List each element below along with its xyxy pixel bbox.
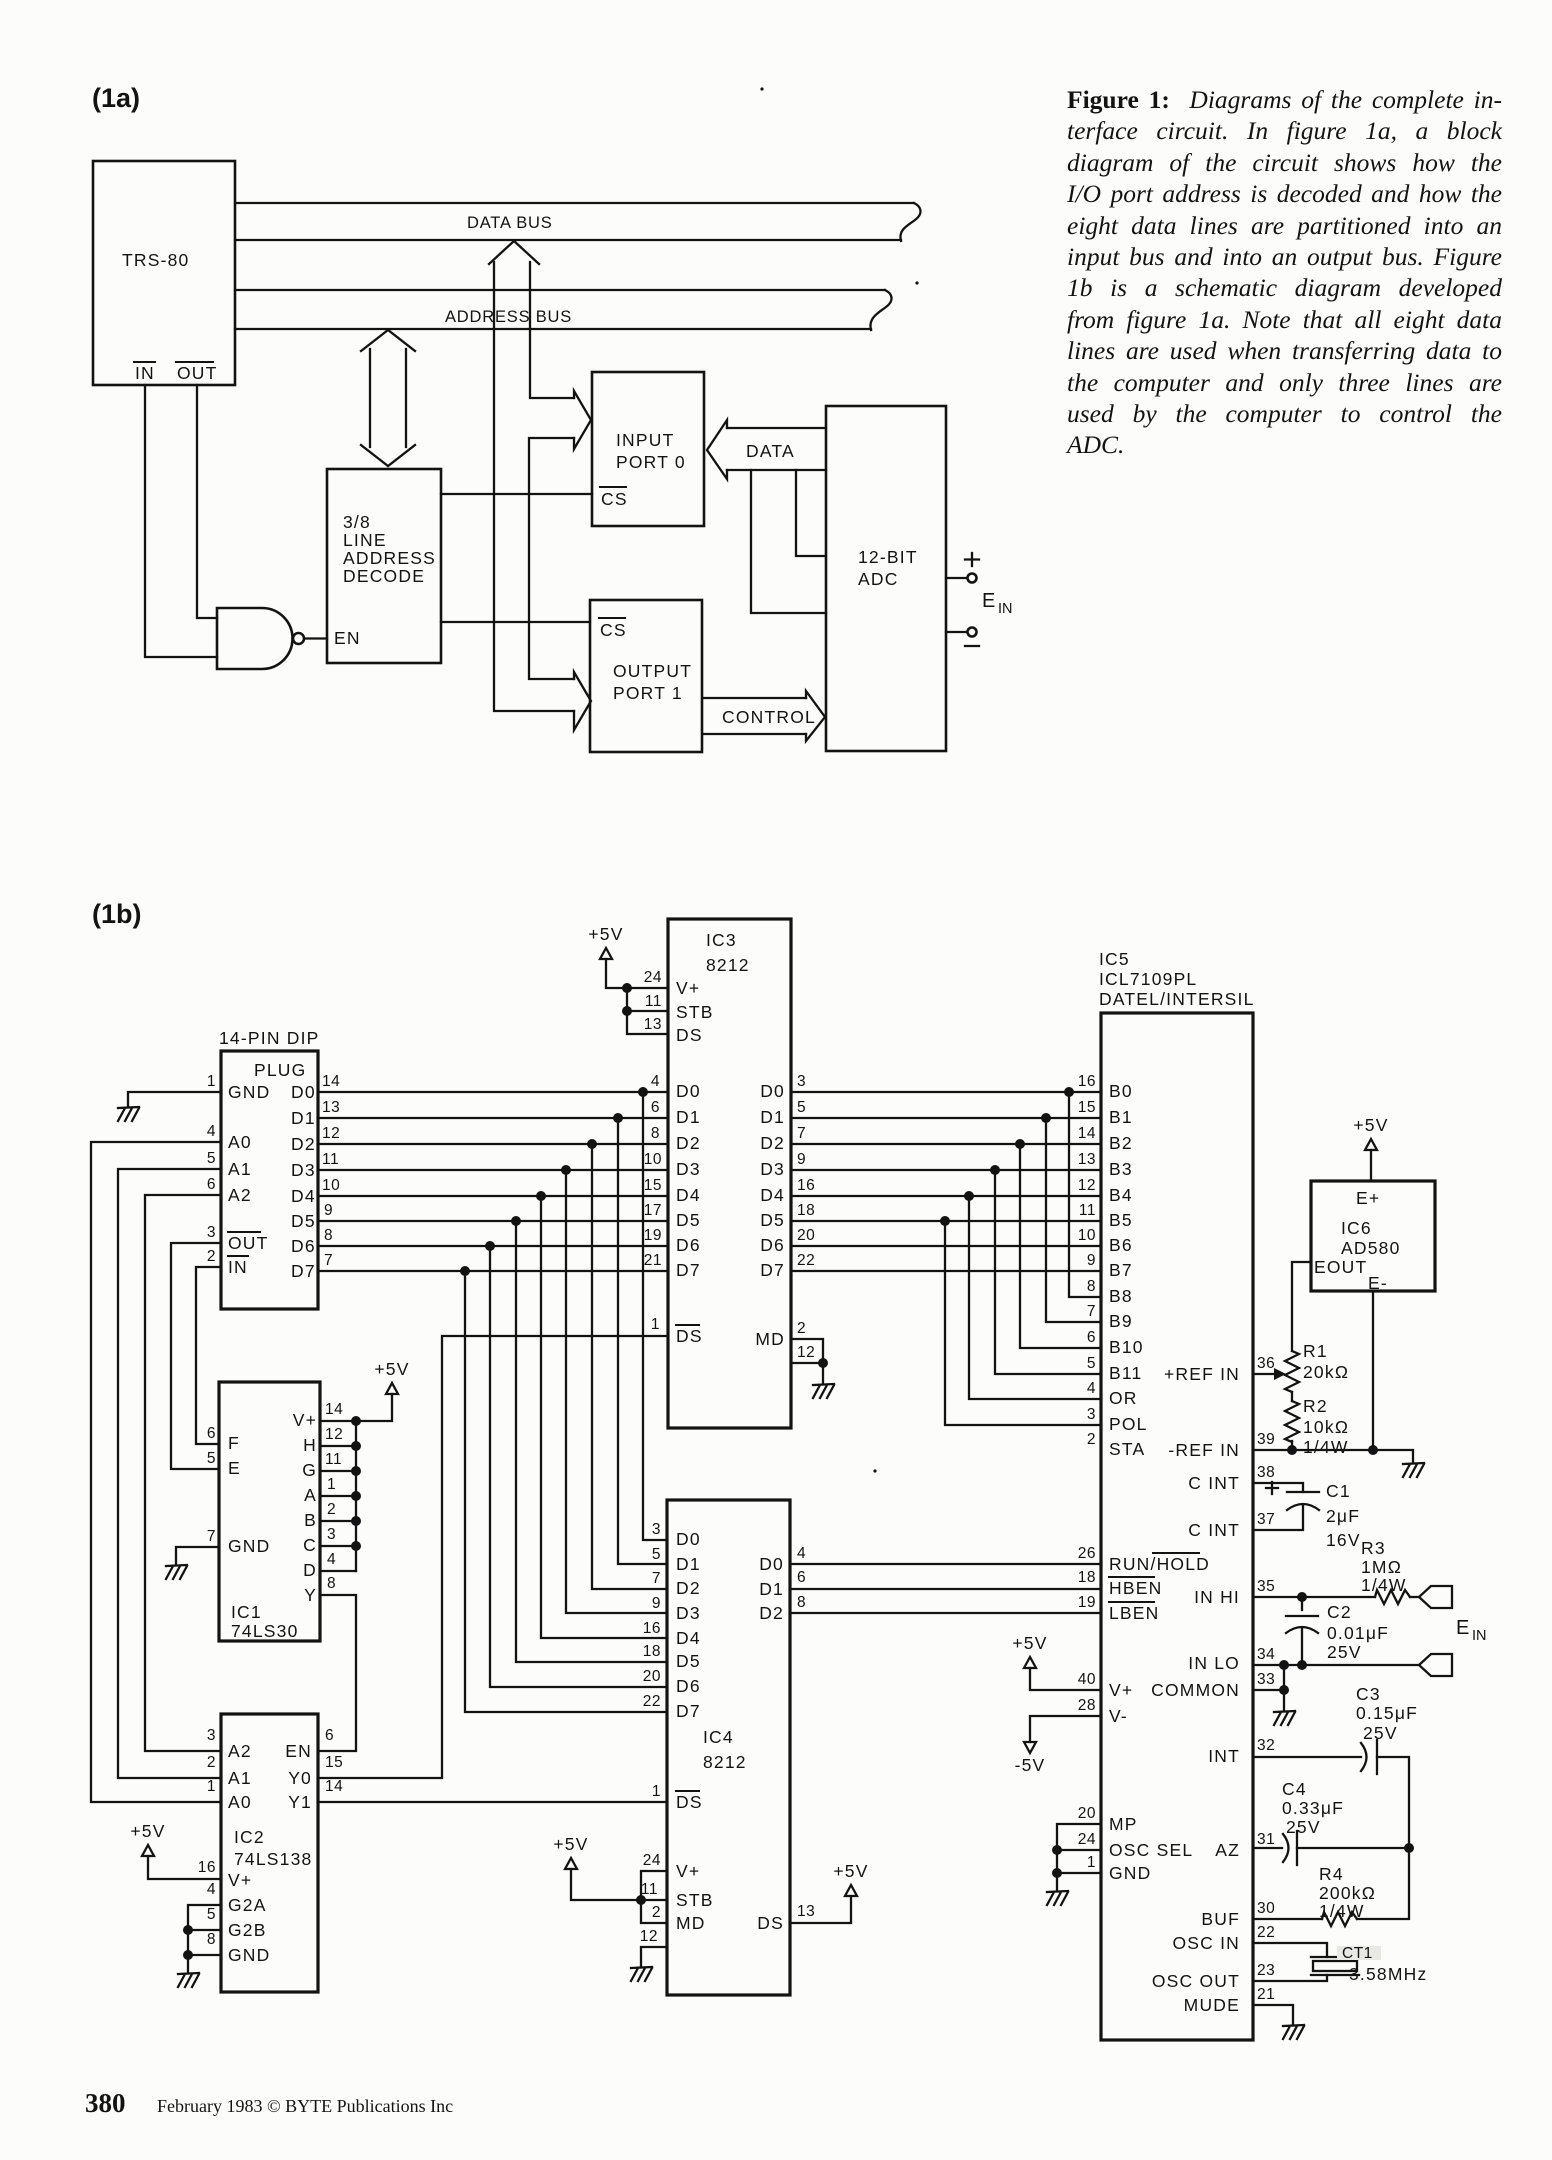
svg-text:IC6: IC6 — [1341, 1218, 1372, 1238]
IC2 74LS138 decoder — [221, 1714, 318, 1992]
wire D3 down to IC4 — [566, 1170, 667, 1613]
IC4 label D1 — [676, 1554, 701, 1574]
junction IC5 GND — [1052, 1868, 1062, 1878]
svg-text:8: 8 — [324, 1227, 333, 1244]
svg-text:E: E — [1456, 1617, 1469, 1639]
svg-text:1/4W: 1/4W — [1303, 1437, 1349, 1457]
svg-text:5: 5 — [797, 1099, 806, 1116]
svg-text:D3: D3 — [676, 1603, 701, 1623]
svg-text:20kΩ: 20kΩ — [1303, 1362, 1349, 1382]
svg-text:IN: IN — [998, 601, 1013, 617]
svg-text:3: 3 — [207, 1224, 216, 1241]
IC3 label D2 left/right — [676, 1133, 785, 1153]
junction B5 tap — [940, 1216, 950, 1226]
junction IC1 1521 — [351, 1516, 361, 1526]
svg-text:ADDRESS BUS: ADDRESS BUS — [445, 308, 572, 326]
IC3 label D3 left/right — [676, 1159, 785, 1179]
svg-text:25V: 25V — [1327, 1642, 1362, 1662]
svg-text:8: 8 — [327, 1575, 336, 1592]
svg-text:+5V: +5V — [374, 1359, 409, 1379]
svg-text:22: 22 — [797, 1252, 815, 1269]
junction IC3 V+ — [622, 983, 632, 993]
junction B4 tap — [964, 1191, 974, 1201]
svg-text:D6: D6 — [676, 1235, 701, 1255]
crystal CT1 3.58MHz — [1311, 1945, 1427, 1984]
svg-text:OSC OUT: OSC OUT — [1152, 1971, 1240, 1991]
svg-text:BUF: BUF — [1201, 1909, 1240, 1929]
IC1 stub y1521 — [320, 1520, 356, 1522]
svg-text:G2B: G2B — [228, 1920, 267, 1940]
svg-text:AZ: AZ — [1215, 1840, 1240, 1860]
wire IC1 Y to IC2 EN — [318, 1595, 356, 1751]
svg-text:Y: Y — [304, 1585, 317, 1605]
plug left pin numbers — [207, 1073, 216, 1265]
svg-text:R1: R1 — [1303, 1341, 1328, 1361]
svg-text:11: 11 — [1079, 1202, 1096, 1219]
wire IC3 D3 to IC5 B3 — [791, 1169, 1101, 1171]
wire IC5 AZ pin31 — [1253, 1847, 1282, 1849]
svg-text:GND: GND — [1109, 1863, 1152, 1883]
svg-text:6: 6 — [797, 1569, 806, 1586]
IC1 stub y1496 — [320, 1495, 356, 1497]
svg-text:GND: GND — [228, 1082, 271, 1102]
svg-text:B6: B6 — [1109, 1235, 1133, 1255]
svg-text:16: 16 — [643, 1620, 661, 1637]
wire tap down to IC5 BPOL — [945, 1221, 1101, 1425]
junction E-/-REF — [1368, 1445, 1378, 1455]
junction COMMON — [1279, 1685, 1289, 1695]
svg-text:OSC SEL: OSC SEL — [1109, 1840, 1193, 1860]
svg-text:D1: D1 — [291, 1108, 316, 1128]
+5V (IC4 STB) — [553, 1834, 588, 1869]
svg-text:4: 4 — [207, 1881, 216, 1898]
svg-text:GND: GND — [228, 1945, 271, 1965]
svg-text:GND: GND — [228, 1536, 271, 1556]
svg-text:D7: D7 — [760, 1260, 785, 1280]
wire IC4 D0 to IC5 RUN/HOLD — [790, 1563, 1101, 1565]
wire D1 plug to IC3 — [318, 1117, 668, 1119]
svg-text:12: 12 — [322, 1125, 340, 1142]
wire IC3 D5 to IC5 B5 — [791, 1220, 1101, 1222]
IC3 label D4 left/right — [676, 1185, 785, 1205]
resistor R2 10k — [1285, 1396, 1349, 1457]
IC1 stub y1471 — [320, 1470, 356, 1472]
ground (COMMON) — [1274, 1711, 1295, 1725]
svg-text:D2: D2 — [676, 1133, 701, 1153]
wire IC6 E- down — [1372, 1291, 1374, 1450]
svg-text:+5V: +5V — [588, 924, 623, 944]
wire IC3 D2 to IC5 B2 — [791, 1143, 1101, 1145]
junction B2 tap — [1015, 1139, 1025, 1149]
svg-text:16: 16 — [1078, 1073, 1096, 1090]
wire D4 plug to IC3 — [318, 1195, 668, 1197]
svg-text:C: C — [303, 1535, 317, 1555]
wire IC2 Y1 to IC4 DS — [318, 1801, 667, 1803]
wire IC4 DS pin13 — [790, 1896, 851, 1923]
svg-text:LBEN: LBEN — [1109, 1603, 1160, 1623]
resistor R4 200k — [1319, 1864, 1376, 1926]
junction IC1 1546 — [351, 1541, 361, 1551]
svg-text:10: 10 — [644, 1151, 662, 1168]
svg-text:23: 23 — [1257, 1962, 1275, 1979]
wire D0 plug to IC3 — [318, 1091, 668, 1093]
IC5 ICL7109PL ADC — [1099, 949, 1255, 2040]
svg-text:2: 2 — [207, 1754, 216, 1771]
svg-text:7: 7 — [207, 1528, 216, 1545]
svg-text:3.58MHz: 3.58MHz — [1349, 1964, 1427, 1984]
svg-text:A2: A2 — [228, 1741, 252, 1761]
svg-text:B3: B3 — [1109, 1159, 1133, 1179]
svg-text:DS: DS — [676, 1025, 703, 1045]
svg-text:R4: R4 — [1319, 1864, 1344, 1884]
svg-text:9: 9 — [652, 1595, 661, 1612]
svg-text:12-BIT: 12-BIT — [858, 547, 918, 567]
svg-text:0.15μF: 0.15μF — [1356, 1703, 1418, 1723]
svg-text:V+: V+ — [293, 1410, 317, 1430]
svg-text:C3: C3 — [1356, 1684, 1381, 1704]
svg-text:11: 11 — [325, 1451, 342, 1468]
svg-text:6: 6 — [325, 1727, 334, 1744]
svg-text:D0: D0 — [676, 1081, 701, 1101]
svg-text:14: 14 — [322, 1073, 340, 1090]
svg-text:18: 18 — [643, 1643, 661, 1660]
wire +5V to IC4 STB — [571, 1869, 641, 1900]
svg-text:INPUT: INPUT — [616, 430, 675, 450]
terminal E_IN minus — [946, 628, 979, 647]
svg-text:D5: D5 — [760, 1210, 785, 1230]
ground (IC5 GND) — [1047, 1891, 1068, 1905]
IC4 label D6 — [676, 1676, 701, 1696]
wire IC6 EOUT to R1 — [1292, 1262, 1311, 1351]
svg-text:74LS138: 74LS138 — [234, 1849, 312, 1869]
wire D2 down to IC4 — [592, 1144, 667, 1589]
svg-text:14: 14 — [325, 1778, 343, 1795]
junction AZ node — [1404, 1843, 1414, 1853]
wire D3 plug to IC3 — [318, 1169, 668, 1171]
svg-text:V+: V+ — [228, 1870, 252, 1890]
svg-text:D1: D1 — [676, 1554, 701, 1574]
wire IC1 V+ to +5V — [356, 1394, 392, 1421]
junction IC3 STB — [622, 1006, 632, 1016]
svg-text:B9: B9 — [1109, 1311, 1133, 1331]
wire IC5 C INT pin37 — [1253, 1505, 1303, 1530]
label E_IN (1b) — [1456, 1617, 1487, 1644]
svg-text:6: 6 — [651, 1099, 660, 1116]
svg-text:24: 24 — [643, 1852, 661, 1869]
svg-text:8212: 8212 — [706, 955, 750, 975]
svg-text:+5V: +5V — [1353, 1115, 1388, 1135]
svg-text:B11: B11 — [1109, 1363, 1142, 1383]
IC3 label D7 left/right — [676, 1260, 785, 1280]
IC2 pin numbers — [198, 1727, 344, 1948]
ground (IC1) — [166, 1565, 187, 1579]
svg-text:40: 40 — [1078, 1671, 1096, 1688]
svg-text:8: 8 — [207, 1931, 216, 1948]
14-pin DIP plug J1 — [219, 1028, 320, 1309]
svg-text:13: 13 — [797, 1903, 815, 1920]
svg-text:D2: D2 — [291, 1134, 316, 1154]
junction D4 — [536, 1191, 546, 1201]
IC3 right pin numbers — [797, 1073, 815, 1361]
wire plug A1 to IC2 A1 — [118, 1169, 221, 1778]
pin OUT (TRS-80) — [175, 362, 218, 383]
svg-text:CONTROL: CONTROL — [722, 707, 816, 727]
svg-text:D7: D7 — [291, 1261, 316, 1281]
svg-text:B4: B4 — [1109, 1185, 1133, 1205]
svg-text:R3: R3 — [1361, 1538, 1386, 1558]
svg-text:E+: E+ — [1356, 1188, 1380, 1208]
junction B0 tap — [1064, 1087, 1074, 1097]
bus tap arrow into data bus — [489, 241, 539, 264]
svg-text:POL: POL — [1109, 1414, 1148, 1434]
wire IC3 D4 to IC5 B4 — [791, 1195, 1101, 1197]
capacitor C3 0.15uF — [1356, 1684, 1418, 1774]
svg-text:ICL7109PL: ICL7109PL — [1099, 969, 1197, 989]
junction IN LO / COMMON — [1279, 1660, 1289, 1670]
svg-text:D0: D0 — [760, 1081, 785, 1101]
wire IC3 D7 to IC5 B7 — [791, 1270, 1101, 1272]
svg-text:3: 3 — [207, 1727, 216, 1744]
svg-text:D7: D7 — [676, 1260, 701, 1280]
svg-text:35: 35 — [1257, 1578, 1275, 1595]
IC3 label D1 left/right — [676, 1107, 785, 1127]
+5V (IC6) — [1353, 1115, 1388, 1150]
svg-text:20: 20 — [797, 1227, 815, 1244]
svg-text:37: 37 — [1257, 1511, 1275, 1528]
junction D6 — [485, 1241, 495, 1251]
wire IC2 G2A/G2B/GND tie — [188, 1905, 221, 1973]
wire R3 to connector — [1410, 1596, 1419, 1598]
svg-text:2: 2 — [1087, 1431, 1096, 1448]
svg-text:3: 3 — [327, 1526, 336, 1543]
junction R2/-REF — [1287, 1445, 1297, 1455]
svg-text:DS: DS — [676, 1792, 703, 1812]
svg-text:2μF: 2μF — [1326, 1506, 1360, 1526]
pin IN (TRS-80) — [133, 362, 156, 383]
svg-text:B: B — [304, 1510, 317, 1530]
svg-text:(1b): (1b) — [92, 899, 142, 929]
svg-text:1: 1 — [327, 1476, 336, 1493]
svg-text:32: 32 — [1257, 1737, 1275, 1754]
wire OUT to NAND — [197, 385, 217, 618]
svg-text:3: 3 — [797, 1073, 806, 1090]
NAND gate U1 — [217, 608, 327, 669]
svg-text:OUT: OUT — [228, 1233, 269, 1253]
IC5 right pin numbers — [1257, 1355, 1275, 2003]
IC4 label D4 — [676, 1628, 701, 1648]
svg-text:11: 11 — [641, 1881, 658, 1898]
svg-text:13: 13 — [644, 1016, 662, 1033]
figure label (1b) — [92, 899, 142, 929]
svg-text:H: H — [303, 1435, 317, 1455]
svg-text:-5V: -5V — [1015, 1755, 1046, 1775]
svg-text:39: 39 — [1257, 1431, 1275, 1448]
svg-text:E-: E- — [1368, 1273, 1388, 1293]
svg-text:200kΩ: 200kΩ — [1319, 1883, 1376, 1903]
svg-text:D0: D0 — [759, 1554, 784, 1574]
wire IC5 MP/OSCSEL/GND tie — [1057, 1824, 1101, 1891]
junction IC1 1496 — [351, 1491, 361, 1501]
svg-text:3/8: 3/8 — [343, 512, 371, 532]
svg-text:PORT 1: PORT 1 — [613, 683, 683, 703]
IC4 left pin numbers — [640, 1521, 661, 1945]
svg-text:30: 30 — [1257, 1900, 1275, 1917]
wire tap down to IC5 B8 — [1069, 1092, 1101, 1297]
junction IC4 STB — [636, 1895, 646, 1905]
wire D5 down to IC4 — [516, 1221, 667, 1662]
wire IC3 V+/STB/DS tie — [627, 988, 668, 1034]
resistor R1 20k — [1285, 1341, 1349, 1392]
wire D2 plug to IC3 — [318, 1143, 668, 1145]
IC3 label D0 left/right — [676, 1081, 785, 1101]
svg-text:12: 12 — [797, 1344, 815, 1361]
svg-text:D4: D4 — [676, 1628, 701, 1648]
svg-text:C INT: C INT — [1188, 1473, 1240, 1493]
svg-text:INT: INT — [1208, 1746, 1240, 1766]
svg-text:16V: 16V — [1326, 1530, 1361, 1550]
svg-text:6: 6 — [207, 1425, 216, 1442]
connector E_IN lo — [1419, 1654, 1452, 1676]
svg-text:1: 1 — [1087, 1854, 1096, 1871]
svg-text:CS: CS — [600, 620, 627, 640]
svg-text:17: 17 — [644, 1202, 662, 1219]
svg-text:CT1: CT1 — [1342, 1945, 1373, 1962]
svg-text:12: 12 — [325, 1426, 343, 1443]
svg-text:12: 12 — [1078, 1177, 1096, 1194]
svg-text:1: 1 — [651, 1316, 660, 1333]
IC5 label RUN/HOLD — [1109, 1553, 1210, 1574]
svg-text:(1a): (1a) — [92, 83, 140, 113]
svg-text:IN LO: IN LO — [1188, 1653, 1240, 1673]
svg-text:6: 6 — [207, 1176, 216, 1193]
svg-text:DS: DS — [757, 1913, 784, 1933]
svg-text:D3: D3 — [291, 1160, 316, 1180]
wire IC4 V+/STB/MD tie — [641, 1871, 667, 1923]
svg-text:B7: B7 — [1109, 1260, 1133, 1280]
svg-text:STA: STA — [1109, 1439, 1145, 1459]
svg-text:OR: OR — [1109, 1388, 1138, 1408]
wire D5 plug to IC3 — [318, 1220, 668, 1222]
wire: data band to ADC (left) — [751, 470, 826, 613]
IC1 stub y1421 — [320, 1420, 356, 1422]
input port 0 block — [592, 372, 704, 526]
svg-text:1: 1 — [652, 1783, 661, 1800]
svg-text:V-: V- — [1109, 1706, 1128, 1726]
12-bit ADC block — [826, 406, 946, 751]
wire D4 down to IC4 — [541, 1196, 667, 1638]
wire IC5 OSC OUT pin23 — [1253, 1975, 1327, 1981]
svg-text:D5: D5 — [291, 1211, 316, 1231]
wire D1 down to IC4 — [618, 1118, 667, 1564]
svg-text:15: 15 — [1078, 1099, 1096, 1116]
svg-text:D6: D6 — [760, 1235, 785, 1255]
svg-text:21: 21 — [644, 1252, 662, 1269]
svg-text:OSC IN: OSC IN — [1173, 1933, 1241, 1953]
svg-text:2: 2 — [652, 1904, 661, 1921]
svg-text:0.01μF: 0.01μF — [1327, 1623, 1389, 1643]
-5V (IC5 V-) — [1015, 1742, 1046, 1775]
svg-text:18: 18 — [1078, 1569, 1096, 1586]
IC1 +5V bus vertical — [355, 1421, 357, 1571]
output port 1 block — [590, 600, 702, 752]
IC5 left pin numbers — [1078, 1073, 1096, 1871]
IC4 labels V+/STB/MD — [676, 1861, 714, 1933]
wire IC5 IN HI pin35 — [1253, 1596, 1375, 1598]
wire tap down to IC5 B11 — [995, 1170, 1101, 1374]
wire IC3 D0 to IC5 B0 — [791, 1091, 1101, 1093]
svg-text:IC2: IC2 — [234, 1827, 265, 1847]
svg-text:TRS-80: TRS-80 — [122, 250, 190, 270]
svg-text:G: G — [302, 1460, 317, 1480]
svg-text:EN: EN — [334, 628, 361, 648]
svg-text:4: 4 — [207, 1123, 216, 1140]
junction IC1 1446 — [351, 1441, 361, 1451]
junction D5 — [511, 1216, 521, 1226]
resistor R3 1M — [1361, 1538, 1410, 1604]
svg-text:D7: D7 — [676, 1701, 701, 1721]
IC3 left pin numbers — [644, 969, 662, 1333]
svg-text:B0: B0 — [1109, 1081, 1133, 1101]
junction B1 tap — [1041, 1113, 1051, 1123]
wire: right shaft to input-port arrow — [530, 262, 574, 398]
svg-text:V+: V+ — [676, 978, 700, 998]
svg-text:MP: MP — [1109, 1814, 1138, 1834]
svg-text:CS: CS — [601, 489, 628, 509]
IC1 stub y1571 — [320, 1570, 356, 1572]
page specks — [760, 87, 918, 1472]
svg-text:15: 15 — [644, 1177, 662, 1194]
svg-text:E: E — [228, 1458, 241, 1478]
svg-text:13: 13 — [1078, 1151, 1096, 1168]
wire +5V to IC2 V+ — [148, 1856, 221, 1879]
wire IC5 +REF IN pin36 — [1253, 1368, 1286, 1380]
svg-text:A1: A1 — [228, 1768, 252, 1788]
wire R2 bottom — [1291, 1441, 1293, 1450]
IC4 label D7 — [676, 1701, 701, 1721]
arrowhead into output port 1 — [574, 672, 591, 730]
+5V (IC2) — [130, 1821, 165, 1856]
3/8 line address decode block — [327, 469, 441, 663]
junction D2 — [587, 1139, 597, 1149]
svg-text:ADDRESS: ADDRESS — [343, 548, 436, 568]
junction IN LO / C2 — [1297, 1660, 1307, 1670]
svg-text:D4: D4 — [676, 1185, 701, 1205]
svg-text:HBEN: HBEN — [1109, 1578, 1162, 1598]
svg-text:MD: MD — [676, 1913, 706, 1933]
wire C3 to node — [1377, 1757, 1409, 1848]
svg-text:1/4W: 1/4W — [1361, 1575, 1407, 1595]
svg-text:OUT: OUT — [177, 363, 218, 383]
svg-text:B2: B2 — [1109, 1133, 1133, 1153]
junction IC1 1421 — [351, 1416, 361, 1426]
DATA arrow (ADC to input port) — [707, 420, 826, 479]
wire IC5 -REF IN pin39 — [1253, 1450, 1413, 1463]
svg-text:9: 9 — [797, 1151, 806, 1168]
svg-text:+5V: +5V — [1012, 1633, 1047, 1653]
wire tap down to IC5 B10 — [1020, 1144, 1101, 1348]
svg-text:4: 4 — [1087, 1380, 1096, 1397]
svg-text:IN: IN — [228, 1257, 248, 1277]
svg-text:C INT: C INT — [1188, 1520, 1240, 1540]
svg-text:IC4: IC4 — [703, 1727, 734, 1747]
svg-text:MD: MD — [755, 1329, 785, 1349]
IC4 right pin numbers — [797, 1545, 815, 1920]
wire IC3 D1 to IC5 B1 — [791, 1117, 1101, 1119]
IC4 8212 latch — [667, 1500, 790, 1995]
svg-text:V+: V+ — [676, 1861, 700, 1881]
svg-text:3: 3 — [1087, 1406, 1096, 1423]
svg-text:7: 7 — [324, 1252, 333, 1269]
